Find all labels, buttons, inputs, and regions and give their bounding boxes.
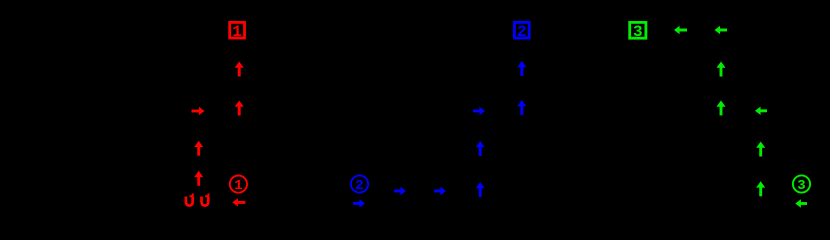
svg-text:1: 1: [232, 23, 242, 41]
green current arrow left (top wire, left): [674, 26, 687, 34]
svg-text:2: 2: [517, 23, 527, 41]
red current arrow up (left branch, upper): [194, 141, 203, 156]
mesh number 3 (green circled): [793, 175, 810, 194]
blue current arrow up (under box 2, lower): [517, 100, 526, 115]
mesh number 2 (blue circled): [351, 175, 368, 194]
blue current arrow up (under box 2, upper): [517, 61, 526, 76]
red current arrow left (bottom): [232, 198, 245, 206]
blue current arrow right (below mesh 2 label): [353, 199, 365, 207]
green current arrow up (branch 3, upper): [717, 62, 726, 77]
mesh number 1 (red circled): [230, 176, 247, 195]
green current arrow left (top wire, right): [715, 26, 728, 34]
green current arrow left (middle right): [755, 107, 767, 115]
red loop direction symbol 1: [186, 194, 194, 206]
red loop direction symbol 2: [202, 194, 210, 206]
branch label box 1 (red): [230, 22, 245, 40]
red current arrow up (under box 1, upper): [235, 62, 244, 77]
svg-text:1: 1: [234, 178, 242, 194]
red current arrow right (left of branch 1): [192, 107, 205, 115]
blue current arrow up (right branch, upper): [476, 141, 485, 156]
blue current arrow right (bottom wire, left): [394, 187, 406, 195]
green current arrow up (right branch, upper): [756, 142, 765, 157]
red current arrow up (left branch, lower): [194, 171, 203, 186]
green current arrow left (bottom): [795, 199, 807, 207]
green current arrow up (right branch, lower): [756, 181, 765, 196]
branch label box 2 (blue): [514, 22, 529, 40]
red current arrow up (under box 1, lower): [235, 101, 244, 116]
branch label box 3 (green): [630, 22, 646, 41]
svg-text:3: 3: [633, 23, 643, 41]
green current arrow up (branch 3, lower): [717, 100, 726, 115]
blue current arrow right (bottom wire, right): [434, 187, 446, 195]
blue current arrow right (left of branch 2): [473, 107, 485, 115]
svg-text:2: 2: [355, 178, 363, 194]
blue current arrow up (right branch, lower): [476, 182, 485, 197]
svg-text:3: 3: [797, 178, 805, 194]
